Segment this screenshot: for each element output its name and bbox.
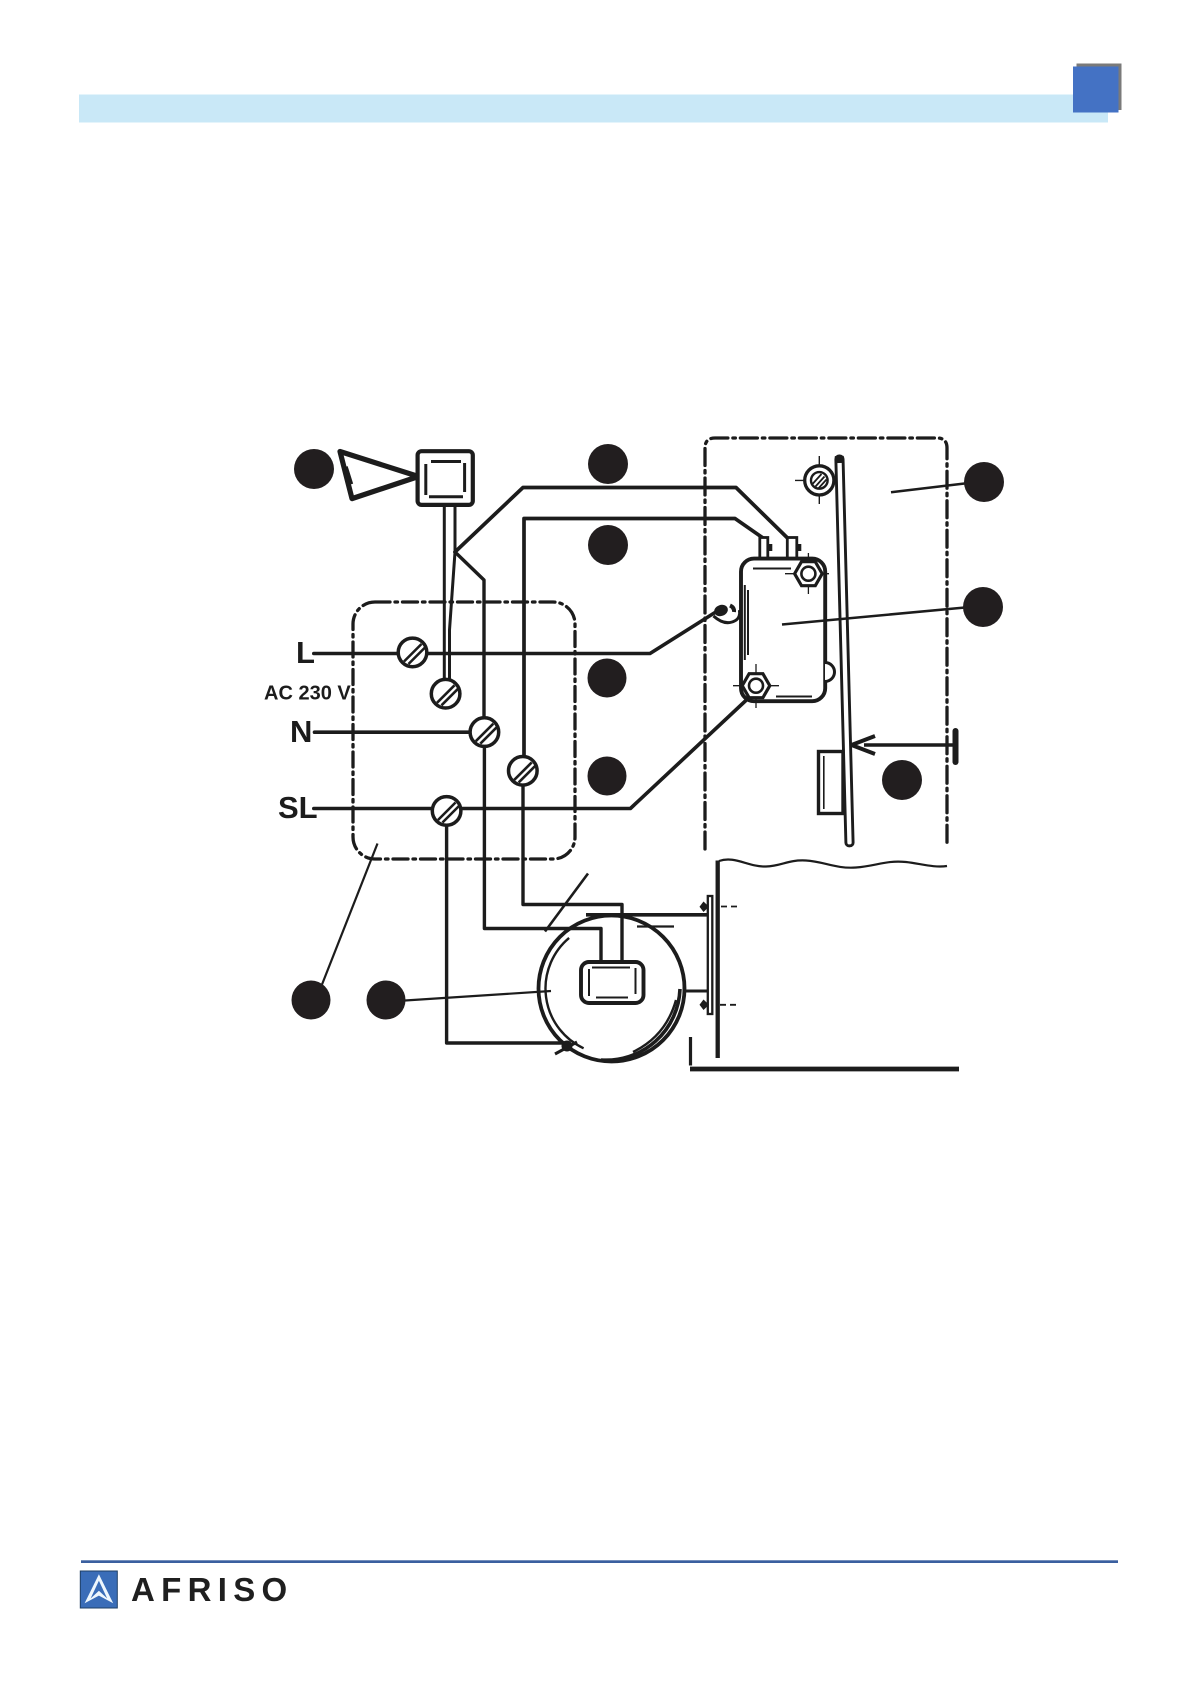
terminal screw (switch lead) <box>509 757 538 786</box>
callout 1 (horn) <box>294 449 334 489</box>
blower outlet inner dash <box>637 925 674 927</box>
svg-text:AFRISO: AFRISO <box>131 1571 293 1608</box>
leader slash to blower <box>545 874 588 932</box>
blower wire terminal blob <box>555 1041 577 1054</box>
wire: bell node to N screw <box>455 552 484 718</box>
fan motor capacitor box <box>581 962 644 1003</box>
terminal screw N <box>470 718 499 747</box>
svg-text:N: N <box>290 714 312 749</box>
svg-text:L: L <box>296 635 315 670</box>
wire: screw down to fan motor right <box>523 785 622 962</box>
svg-text:SL: SL <box>278 790 318 825</box>
terminal box (dash-dot rounded rectangle) <box>353 602 575 859</box>
wire: bell right lead <box>450 505 456 680</box>
microswitch lead tab lower <box>760 538 773 559</box>
svg-text:AC 230 V: AC 230 V <box>264 683 351 705</box>
flange bolt upper <box>700 902 738 913</box>
AFRISO logo glyph <box>85 1574 114 1603</box>
wire: L line to microswitch common <box>314 613 715 654</box>
header blue square <box>1073 67 1119 113</box>
callout right upper (mounting plate) <box>964 462 1004 502</box>
callout right middle (microswitch) <box>963 587 1003 627</box>
leader line to callout 2 (mounting plate) <box>891 484 965 493</box>
blower outlet bottom scroll <box>601 984 708 1060</box>
bell box <box>418 451 473 505</box>
microswitch nut upper <box>785 553 829 594</box>
callout bottom (fan motor) <box>367 981 406 1020</box>
wire: SL line to microswitch NC terminal <box>314 699 748 809</box>
header light blue bar <box>79 95 1108 123</box>
mounting plate box (dash-dot rounded rectangle) <box>705 438 947 849</box>
alarm horn <box>340 452 419 499</box>
footer rule <box>81 1560 1118 1563</box>
microswitch nut lower <box>733 664 779 708</box>
wire: bell to microswitch NO (diagonal + top run) <box>455 488 788 553</box>
boiler wall <box>716 861 720 1059</box>
terminal screw (bell lead) <box>431 679 460 708</box>
wire hook on microswitch common <box>713 603 740 623</box>
bracket on plate <box>819 752 844 814</box>
leader line to callout 3 (microswitch) <box>782 608 965 625</box>
boiler bottom edge <box>690 1037 959 1069</box>
microswitch body <box>741 559 825 702</box>
wire: bell left lead <box>443 505 446 680</box>
leader to callout 6 (terminal box) <box>322 844 378 985</box>
blower inner arc <box>545 938 583 1048</box>
header square shadow <box>1077 64 1122 111</box>
wire: screw to microswitch lower lead <box>524 519 763 757</box>
callout right lower (lever) <box>882 760 922 800</box>
terminal screw L <box>398 638 427 667</box>
blower outlet top <box>586 913 708 917</box>
AFRISO logo square <box>80 1571 117 1608</box>
mounting screw <box>795 456 845 504</box>
actuating arrow <box>852 731 956 762</box>
wire: SL screw down to blower housing <box>447 825 565 1043</box>
blower flange plate <box>708 896 713 1014</box>
leader to callout 7 (fan motor) <box>405 991 551 1001</box>
callout middle d <box>588 757 627 796</box>
callout middle c <box>588 659 627 698</box>
blower housing circle <box>539 916 685 1062</box>
wire: N line <box>315 730 479 734</box>
callout top middle b <box>588 525 628 565</box>
callout bottom left (terminal box) <box>292 981 331 1020</box>
lever plate <box>835 456 854 846</box>
microswitch lead tab upper <box>787 538 801 559</box>
flange bolt lower <box>700 1000 739 1011</box>
terminal screw SL <box>432 797 461 826</box>
microswitch plunger <box>825 663 835 682</box>
wire: N screw down to fan motor left <box>484 747 601 963</box>
boiler wall wavy break line <box>719 860 947 868</box>
callout top middle a <box>588 444 628 484</box>
